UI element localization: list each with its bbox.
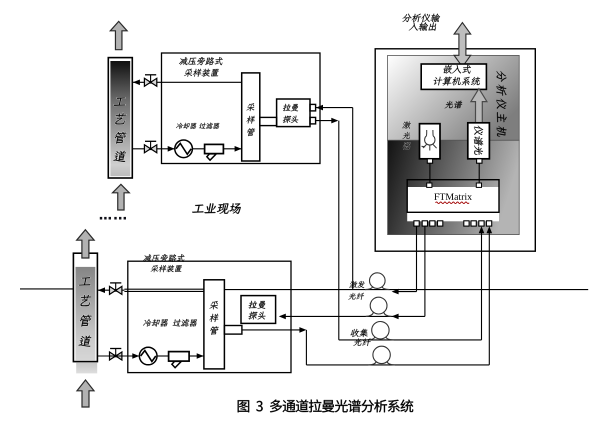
FTMatrix top port 1: [427, 183, 432, 187]
arrowhead collection ch2: [299, 327, 306, 333]
wire: port1 left to coil C1: [394, 291, 417, 293]
label: pressure-reducing bypass sampler (top): [179, 57, 224, 77]
FTMatrix bottom port 7: [479, 221, 484, 226]
FTMatrix bottom port 5: [464, 221, 469, 226]
wire: probe PR1 collection out: [316, 120, 337, 122]
FTMatrix bottom port 2: [422, 221, 427, 226]
caption: Figure 3 multi-channel Raman spectroscopy analysis system: [238, 400, 414, 413]
sample tube T2: [204, 280, 225, 369]
labels: cooler / filter (top): [176, 123, 220, 129]
arrowhead into P1: [133, 80, 140, 86]
FTMatrix white body: [407, 187, 499, 221]
arrowhead into port7: [479, 226, 485, 233]
wire: collection ch2 up to port8: [488, 230, 490, 365]
wire: FTMatrix port2 down: [424, 226, 426, 316]
sampling enclosure box B2 (bottom): [128, 261, 291, 372]
coupler tab (T1-probe): [260, 117, 277, 125]
spectrometer connector: [477, 159, 482, 163]
FTMatrix top port 2: [476, 183, 481, 187]
wire filter-tube: [189, 355, 204, 357]
I/O double arrow: [454, 23, 471, 67]
wire cooler-filter: [157, 355, 169, 357]
process pipe P1 (top): [108, 58, 132, 178]
analyzer inner gradient panel: [388, 55, 520, 234]
arrowhead into probe PR1: [316, 105, 323, 111]
FTMatrix bottom port 3: [430, 221, 435, 226]
fiber coil C3: [367, 322, 393, 340]
arrowhead into sample tube T2: [197, 353, 204, 359]
wire W2 (pipe P1 lower tap): [133, 148, 242, 150]
wire: collection ch1 down: [338, 121, 340, 340]
flow arrow A4 (up, below pipe P2): [77, 380, 94, 407]
arrowhead into sample tube T1: [235, 146, 242, 152]
label: spectrum: [445, 101, 463, 109]
FTMatrix red squiggle: [436, 202, 470, 204]
label: collection fiber: [350, 329, 371, 346]
valve V3: [110, 283, 122, 295]
wire: collection ch2 across (under coil C4): [306, 364, 489, 366]
fiber coil C2: [366, 297, 392, 316]
flow arrow A1 (up, above pipe P1): [110, 21, 127, 49]
labels: cooler / filter (bottom): [143, 319, 198, 327]
sample tube T1: [242, 73, 260, 161]
wire: collection ch1 up to port7: [481, 230, 483, 340]
embedded computer text: [433, 65, 481, 86]
label: analyzer host (rotated): [496, 70, 506, 137]
Raman probe PR2 (bottom): [241, 296, 276, 324]
wire W1 (pipe P1 upper tap): [133, 81, 242, 83]
arrowhead into coil C1: [392, 289, 399, 295]
wire: collection ch1 across (under coil C3): [339, 339, 482, 341]
label: analyzer I/O: [402, 14, 441, 31]
valve V4: [110, 349, 122, 361]
sampling enclosure box B1 (top): [162, 53, 321, 164]
wire W3 (pipe P2 lower tap): [98, 355, 140, 357]
FTMatrix bottom port 4: [438, 221, 443, 226]
Raman probe PR1 (top): [277, 99, 310, 127]
arrowhead into probe PR2: [279, 314, 286, 320]
arrowhead into pipe P2: [98, 287, 105, 293]
wire: excitation to probe PR2: [282, 315, 425, 317]
wire: probe PR2 collection out: [242, 329, 303, 331]
wire: collection ch2 down: [305, 330, 307, 365]
filter F2: [169, 352, 190, 368]
wire: bus junction up to probe PR1: [352, 108, 354, 290]
filter F1: [205, 144, 224, 160]
analyzer outer box: [375, 49, 535, 251]
valve V2: [144, 141, 156, 153]
arrowhead into cooler E1: [168, 146, 175, 152]
valve V1: [144, 75, 156, 87]
FTMatrix bordered frame: [407, 180, 499, 213]
ellipsis (more channels): [100, 217, 126, 220]
arrowhead into port8: [487, 226, 493, 233]
label: pressure-reducing bypass sampler (bottom): [143, 254, 185, 272]
wire: excitation bus left stub: [20, 288, 73, 290]
label: laser (vertical): [402, 121, 412, 149]
wire: excitation into probe PR1: [316, 107, 353, 109]
flow arrow A2 (up, below pipe P1): [113, 184, 130, 210]
lamp icon in laser box: [422, 130, 437, 151]
coupler tab T2: [224, 326, 242, 335]
probe PR1 tab lower: [310, 117, 316, 124]
spectrometer box U2: [468, 123, 490, 159]
spectrometer text (rotated): [474, 125, 483, 156]
process pipe P2 (bottom): [73, 253, 97, 373]
arrowhead into coil C2: [392, 314, 399, 320]
arrowhead into cooler E2: [132, 353, 139, 359]
FTMatrix bottom port 6: [471, 221, 476, 226]
fiber coil C4: [368, 346, 394, 365]
FTMatrix bottom port 8: [486, 221, 491, 226]
label: excitation fiber: [348, 281, 365, 300]
FTMatrix bottom port 1: [414, 221, 419, 226]
wire: bus into valve V3 (merged): [98, 289, 124, 291]
laser box U1: [420, 124, 441, 159]
FTMatrix label: [434, 193, 472, 200]
probe PR1 tab upper: [310, 104, 316, 111]
wire: excitation bus main: [224, 289, 588, 291]
spectrum block arrow: [471, 89, 487, 123]
wire: double line lower: [124, 290, 203, 292]
fiber coil C1: [365, 273, 390, 290]
laser connector: [427, 159, 432, 163]
wire: double line upper: [124, 288, 203, 290]
wire spectrometer to FTMatrix: [478, 163, 480, 183]
label: industrial field: [192, 203, 241, 213]
cooler E1: [175, 140, 193, 158]
wire: FTMatrix port1 down: [416, 226, 418, 292]
flow arrow A3 (up, above pipe P2): [77, 230, 95, 258]
embedded computer box: [421, 64, 486, 89]
cooler E2: [139, 347, 157, 365]
arrowhead collection ch1: [331, 118, 338, 124]
wire laser to FTMatrix: [429, 163, 431, 183]
